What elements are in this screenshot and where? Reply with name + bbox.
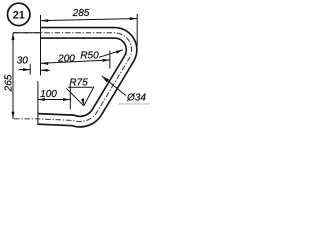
dim 30: right segment with arrow	[41, 69, 51, 71]
dim line 200	[41, 60, 110, 63]
svg-text:30: 30	[17, 55, 29, 66]
extension line right (x=137.2)	[136, 14, 138, 46]
dim line 100	[38, 99, 71, 101]
svg-text:Ø34: Ø34	[126, 92, 146, 103]
svg-text:R75: R75	[69, 77, 88, 88]
dim line 265 (vertical)	[12, 33, 14, 119]
svg-text:100: 100	[40, 89, 57, 100]
svg-text:285: 285	[72, 8, 90, 19]
tube centerline (dash-dot)	[13, 33, 132, 122]
dim line 285 with arrowheads	[41, 19, 137, 21]
extension line for 100 left (x=38)	[37, 81, 39, 125]
tube bore (white inner)	[38, 33, 132, 122]
dim 30: tick	[29, 64, 31, 75]
dim 30: left segment with arrow	[19, 69, 31, 71]
extension line for 200 (x=109.9)	[109, 51, 111, 69]
svg-text:R50: R50	[80, 51, 99, 62]
svg-text:265: 265	[4, 74, 15, 92]
faint scan streak under D34	[118, 103, 150, 105]
svg-text:200: 200	[57, 54, 75, 65]
extension line for 100 right (x=70.3)	[69, 86, 71, 110]
wire: connector line from 265 dim to tube top centerline	[13, 32, 41, 34]
part number circle 21	[8, 3, 30, 25]
svg-text:21: 21	[13, 9, 25, 21]
extension line left (tube end, x=40.5)	[40, 15, 42, 76]
tube body (outer walls)	[38, 33, 132, 122]
